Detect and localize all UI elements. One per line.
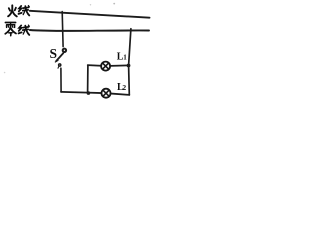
svg-text:S: S [50, 46, 58, 61]
svg-text:1: 1 [123, 53, 127, 61]
svg-text:2: 2 [122, 83, 126, 92]
